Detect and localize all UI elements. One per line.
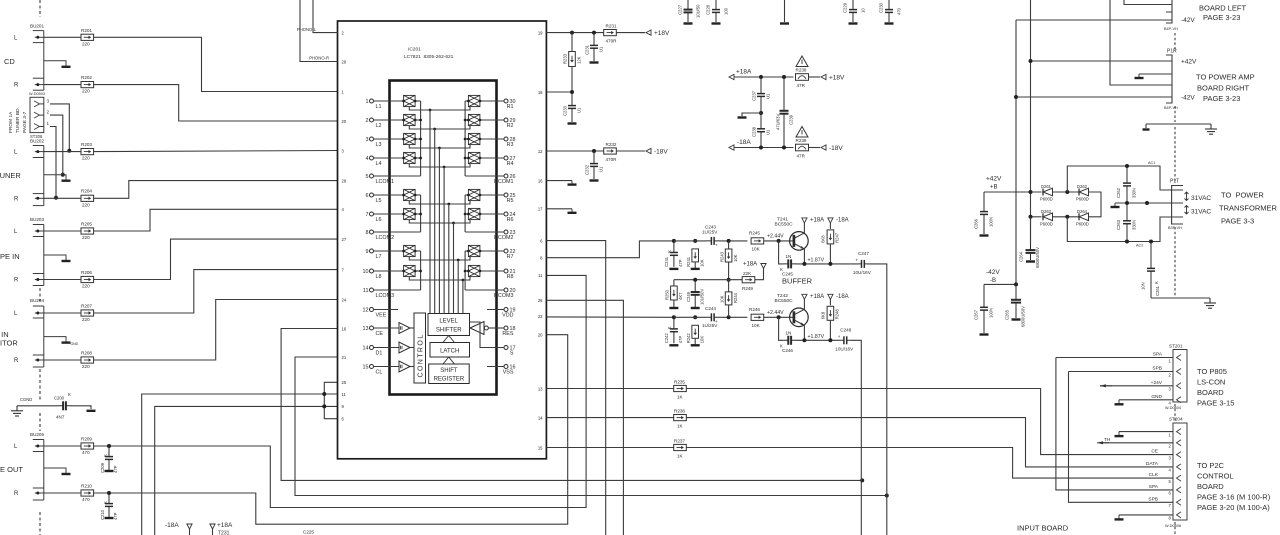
IC pin circle 23 [504,230,508,234]
svg-text:14: 14 [363,345,369,351]
diode D262 [1079,188,1089,196]
svg-text:15: 15 [538,445,543,450]
gnd bar right of C200 [87,410,96,412]
wire R switch in 28 [465,138,468,140]
IC pin circle 25 [504,193,508,197]
gate bus line 2 [434,129,436,314]
terminal -18V [646,148,651,153]
wire buffer out y328 [410,327,414,329]
svg-text:CONTROL: CONTROL [1197,472,1234,481]
svg-text:R8: R8 [507,274,514,280]
wire TH row [1101,442,1173,444]
wire base feedback [779,241,784,264]
svg-text:RCOM3: RCOM3 [494,293,513,299]
wire C243 to R245 [720,240,748,242]
junction C232 top [592,149,596,153]
svg-text:220: 220 [82,156,90,161]
wire L pin 2 to switch [374,119,404,121]
wire -B row [984,283,1016,285]
gnd bar C230 [885,22,894,24]
svg-text:+: + [855,257,858,262]
wire pin26 to bottom [546,300,623,535]
svg-text:BU201: BU201 [30,24,44,29]
wire L pin 7 to switch [374,213,404,215]
svg-text:TAPE OUT: TAPE OUT [0,465,23,474]
wire CGND row [17,405,59,407]
wire emitter down [803,325,805,340]
wire R235 to CE riser [687,389,1174,455]
gnd bar C231 [590,61,599,63]
gnd bar center stub [780,22,789,24]
svg-text:+2.44V: +2.44V [767,233,784,239]
gnd bar C242 [669,344,678,346]
svg-text:-42V: -42V [1181,95,1195,102]
wire switch gates row 3 [409,145,470,148]
wire emitter row 1 [796,263,859,265]
svg-text:47R: 47R [797,154,806,159]
svg-text:C264: C264 [1019,251,1024,262]
svg-text:PAGE 3-23: PAGE 3-23 [1203,94,1240,103]
wire PHONO-R [300,0,338,62]
wire stub gnd center [784,0,786,22]
svg-text:VSS: VSS [503,370,514,376]
IC pin circle 8 [370,230,374,234]
wire collector T241 [803,223,805,233]
wire pin19 row [546,32,603,34]
svg-text:P600D: P600D [1076,221,1089,226]
svg-text:47P: 47P [113,512,118,520]
wire BU204-L to R207 [44,312,81,314]
junction RCOM1 120 [464,119,467,122]
svg-text:SHIFTER: SHIFTER [436,328,462,334]
wire pin6 to bottom [546,241,605,535]
wire S pin to latch [470,322,505,348]
ST204 pin 1 arrow [1177,429,1182,435]
wire pin to buffer y347.5 [374,347,400,349]
svg-text:25: 25 [342,380,347,385]
capacitor C209 [105,446,113,470]
wire switch gates row 4 [409,164,470,167]
svg-text:C200: C200 [54,396,65,401]
wire AC2 [1067,217,1171,242]
wire R233 to pin18 row [571,67,573,93]
svg-text:CE: CE [1151,449,1158,455]
svg-text:W-D0608: W-D0608 [1165,524,1181,528]
svg-text:BOARD: BOARD [1197,388,1224,397]
svg-text:10K: 10K [700,336,705,344]
svg-text:220: 220 [82,202,90,207]
svg-text:TRANSFORMER: TRANSFORMER [1219,204,1278,213]
svg-text:P1T: P1T [1170,179,1179,185]
capacitor C267 [980,284,988,333]
connector ST206 pin 3 [34,101,40,107]
resistor R206 [81,276,94,282]
wire D261-D262 [1053,191,1079,193]
svg-text:LATCH: LATCH [440,349,459,355]
svg-text:-18A: -18A [737,139,751,146]
ST204 pin 4 arrow [1177,464,1182,470]
wire RCOM1 to common [465,175,504,177]
svg-text:47P: 47P [678,259,683,267]
svg-text:CGND: CGND [20,397,32,402]
gnd bar C227 [684,22,693,24]
svg-text:AC2: AC2 [1136,244,1143,248]
junction C238 bot [759,146,763,150]
wire pin16 net buffer2 out row [281,329,862,481]
svg-text:220: 220 [82,41,90,46]
svg-text:1K: 1K [677,454,684,459]
gnd bar C233 [568,122,577,124]
IC pin circle 13 [370,326,374,330]
gnd bar C249 [691,307,700,309]
svg-text:C261: C261 [1155,285,1160,296]
junction gate bus 7 [457,259,460,262]
svg-text:C238: C238 [752,126,757,137]
svg-text:R244: R244 [733,292,738,303]
analog switch left row 5 [402,189,416,200]
input buffer y328 [399,323,410,334]
svg-text:LCOM2: LCOM2 [376,235,395,241]
wire switch gates row 6 [409,220,470,223]
wire pin to buffer y328 [374,327,400,329]
gate bus line 8 [462,280,464,314]
gnd pin16 [571,181,573,185]
wire BU201-R to R202 [44,84,81,86]
svg-text:R236: R236 [674,409,685,414]
svg-text:L2: L2 [376,123,382,129]
wire R232 to -18V [617,150,646,152]
wire switch gates row 8 [409,277,470,280]
svg-text:T241: T241 [777,216,788,222]
svg-text:R208: R208 [81,350,92,355]
wire R243 bot [728,262,730,280]
svg-text:FROM 1A: FROM 1A [8,111,14,133]
input buffer y366.5 [399,361,410,372]
junction gate bus 3 [438,147,441,150]
terminal +18A r249 [761,264,766,269]
fusible resistor R239 [796,144,809,151]
wire R231 to +18V [617,32,646,34]
capacitor C263 [1123,203,1131,242]
wire R pin 24 to switch [480,213,504,215]
svg-text:220: 220 [82,89,90,94]
dashed edge below ST201 [1174,404,1176,421]
wire -18A row [734,147,794,149]
svg-text:BU205: BU205 [30,432,44,437]
IC pin circle 24 [504,212,508,216]
resistor R243 [725,249,732,262]
analog switch right row 2 [467,114,481,125]
wire BU204-R to R208 [44,359,81,361]
svg-text:16: 16 [538,178,543,183]
svg-text:CE: CE [376,331,384,337]
junction C261 top [1149,240,1153,244]
svg-text:R: R [14,358,19,364]
svg-text:10K: 10K [700,259,705,267]
gate bus line 5 [448,204,450,314]
svg-text:C228: C228 [706,4,711,15]
svg-text:IC201: IC201 [408,47,421,53]
junction -B [1014,282,1018,286]
svg-text:R207: R207 [81,303,92,308]
junction C262 top [1125,164,1129,168]
wire R switch in 22 [465,250,468,252]
wire bracket pin25 [324,382,337,418]
wire SPB vertical [1069,372,1174,503]
svg-text:C237: C237 [752,90,757,101]
dashed edge below ST204 [1174,522,1176,535]
svg-text:31VAC: 31VAC [1191,209,1211,216]
input buffer y347.5 [399,342,410,353]
wire BU205-L to R209 [44,445,81,447]
svg-text:C231: C231 [585,44,590,55]
svg-text:29: 29 [342,59,347,64]
svg-text:T231: T231 [218,531,230,535]
junction R241 [693,239,697,243]
svg-text:R239: R239 [796,138,807,143]
analog switch right row 5 [467,189,481,200]
gnd bar C266 [980,234,989,236]
gate bus line 4 [443,167,445,314]
gate bus line 3 [438,148,440,314]
resistor R204 [81,195,94,201]
wire C248 out to bottom [849,340,861,535]
wire -18A to R248 [829,299,831,305]
svg-text:24: 24 [342,297,347,302]
resistor R233 [569,52,576,67]
terminal -18A bottom [187,524,192,529]
svg-text:GND: GND [1151,394,1162,400]
svg-text:+24V: +24V [1151,380,1163,386]
junction R209 node C209 [107,444,111,448]
svg-text:L8: L8 [376,274,382,280]
ST204 pin 7 arrow [1177,499,1182,505]
wire common vertical left LCOM1 [420,101,422,176]
svg-text:-18A: -18A [836,294,849,300]
junction LCOM3 271 [419,270,422,273]
capacitor C210 [105,493,113,517]
resistor R210 [81,490,94,496]
wire P1T center row [1115,202,1172,204]
wire BU202-R to R204 [44,197,81,199]
svg-text:LS-CON: LS-CON [1197,378,1225,387]
svg-text:R5: R5 [507,198,514,204]
ST204 pin 8 arrow [1177,512,1182,518]
wire L pin 9 to switch [374,250,404,252]
wire BU205-R to R210 [44,492,81,494]
arrow +24V [1100,384,1106,387]
svg-text:6800U/50V: 6800U/50V [1035,247,1040,268]
warning triangle R239 [796,127,808,138]
resistor R245 [751,238,764,244]
junction R247 bottom [828,262,832,266]
resistor R237 [674,444,687,450]
gnd bar above P1T [1143,128,1150,130]
svg-text:18: 18 [538,90,543,95]
svg-text:11: 11 [538,273,543,278]
junction row2 x1030 [1029,215,1033,219]
capacitor C245 [783,259,796,268]
svg-text:BOARD: BOARD [1197,482,1224,491]
junction Rdiv 2 [727,315,731,319]
resistor R235 [674,385,687,391]
capacitor C262 [1123,166,1131,203]
resistor R249 [742,277,755,283]
connector BU202 [33,146,66,206]
svg-text:R205: R205 [81,221,92,226]
svg-text:C230: C230 [879,2,884,13]
capacitor C249 [691,280,700,307]
svg-text:L7: L7 [376,254,382,260]
terminal -18A T242 [828,294,833,299]
svg-text:R238: R238 [796,68,807,73]
svg-text:K: K [1154,281,1159,284]
svg-text:6800U/50V: 6800U/50V [1021,306,1026,327]
ST201 pin 2 arrow [1177,369,1182,375]
svg-text:P600D: P600D [1040,197,1053,202]
wire P1R gnd pin [1139,73,1166,75]
svg-text:R231: R231 [606,24,617,29]
svg-text:10K: 10K [733,254,738,262]
junction gate bus 8 [462,279,465,282]
wire R246 to base [764,316,794,318]
wire R pin 28 to switch [480,138,504,140]
gnd bar R241 [691,268,700,270]
svg-text:220: 220 [82,284,90,289]
junction R242 [693,315,697,319]
gnd bar C210 [105,517,114,519]
wire R202 to pin20 [94,85,338,121]
capacitor C241 [670,241,678,267]
wire L pin 4 to switch [374,157,404,159]
junction center dash [1145,201,1149,205]
svg-text:330N: 330N [1132,188,1137,198]
terminal -18V right [821,145,826,150]
capacitor C244 [706,313,720,321]
svg-text:B4P-VH: B4P-VH [1164,27,1178,31]
svg-text:L4: L4 [376,161,382,167]
capacitor C230 [885,0,893,22]
junction input cap C242 [672,315,676,319]
svg-text:31VAC: 31VAC [1191,195,1211,202]
svg-text:1K: 1K [677,424,684,429]
resistor R244 [725,292,732,305]
wire collector T242 [803,299,805,309]
svg-text:12: 12 [538,149,543,154]
warning triangle R238 [796,56,808,67]
svg-text:R241: R241 [686,256,691,267]
svg-text:7: 7 [366,212,369,218]
svg-text:14: 14 [538,415,543,420]
resistor R247 [827,230,834,244]
wire gnd stub mid [742,113,761,116]
wire SPA vertical [1056,358,1173,490]
wire speaker line top [1110,0,1166,85]
svg-text:100N: 100N [989,217,994,227]
svg-text:1N: 1N [786,330,792,335]
wire ST206 pin3 to tuner L [50,104,69,151]
wire +18V rail terminal [640,32,645,34]
svg-text:100: 100 [724,7,729,15]
wire L switch out 6 [415,194,421,196]
capacitor C242 [670,317,678,343]
svg-text:1U/25V: 1U/25V [702,230,718,235]
wire R switch in 25 [465,194,468,196]
wire R245 to base [764,240,794,242]
wire R207 to pin7 [94,270,338,313]
svg-text:R1: R1 [507,104,514,110]
svg-text:L3: L3 [376,142,382,148]
svg-text:330N: 330N [1132,220,1137,230]
svg-text:TH: TH [1104,437,1111,443]
ST204 pin 6 arrow [1177,487,1182,493]
wire 22K row [674,279,742,281]
svg-text:13: 13 [538,386,543,391]
svg-text:D264: D264 [1077,209,1088,214]
earth ground right top [1205,124,1217,134]
svg-text:6K8: 6K8 [821,311,826,319]
svg-text:16: 16 [342,326,347,331]
svg-text:TO P805: TO P805 [1197,367,1227,376]
wire +B row [984,191,1042,193]
svg-text:10K: 10K [752,246,761,251]
wire LCOM2 to common [374,231,421,233]
fusible resistor R238 [796,74,809,81]
svg-text:-B: -B [990,278,996,284]
wire P1L -42V row [1016,19,1166,21]
wire R pin 29 to switch [480,119,504,121]
svg-text:+: + [715,242,718,247]
wire -42V net vertical [1015,20,1017,284]
wire R203 to pin3 [94,151,338,152]
dashed board edge gap1 [39,288,41,301]
gate bus line 7 [457,260,459,314]
resistor R232 [604,148,617,154]
resistor R250 [671,286,678,300]
svg-text:C263: C263 [1116,219,1121,230]
IC pin circle 5 [370,174,374,178]
svg-text:+42V: +42V [986,176,1002,183]
RES inverter [470,322,484,335]
arrows 31VAC [1185,192,1189,214]
dashed board edge top [39,0,41,17]
wire pin12 row [546,150,603,152]
svg-text:ST201: ST201 [1169,344,1183,349]
svg-text:INPUT BOARD: INPUT BOARD [1017,524,1069,533]
analog switch right row 7 [467,245,481,256]
junction C237 [759,75,763,79]
svg-text:R232: R232 [606,142,617,147]
capacitor C266 [980,192,988,234]
IC pin circle 11 [370,288,374,292]
wire ST206 pin1 to tuner R [50,127,56,198]
analog switch left row 4 [402,152,416,163]
wire SPB row st201 [1069,371,1174,373]
svg-text:PAGE 3-15: PAGE 3-15 [1197,399,1234,408]
wire L pin 3 to switch [374,138,404,140]
capacitor C243 [706,237,720,245]
svg-text:R249: R249 [742,286,753,291]
wire row pin11 from bottom [142,394,338,535]
gate bus line 1 [429,110,431,314]
wire row to C243 [674,240,706,242]
IC201 inner box [390,81,497,395]
wire R250 bot [673,300,675,307]
wire common vertical left LCOM3 [420,251,422,290]
dashed board edge gap3 [39,413,41,431]
wire R206 to pin27 [94,239,338,279]
svg-text:10U/16V: 10U/16V [835,346,854,351]
